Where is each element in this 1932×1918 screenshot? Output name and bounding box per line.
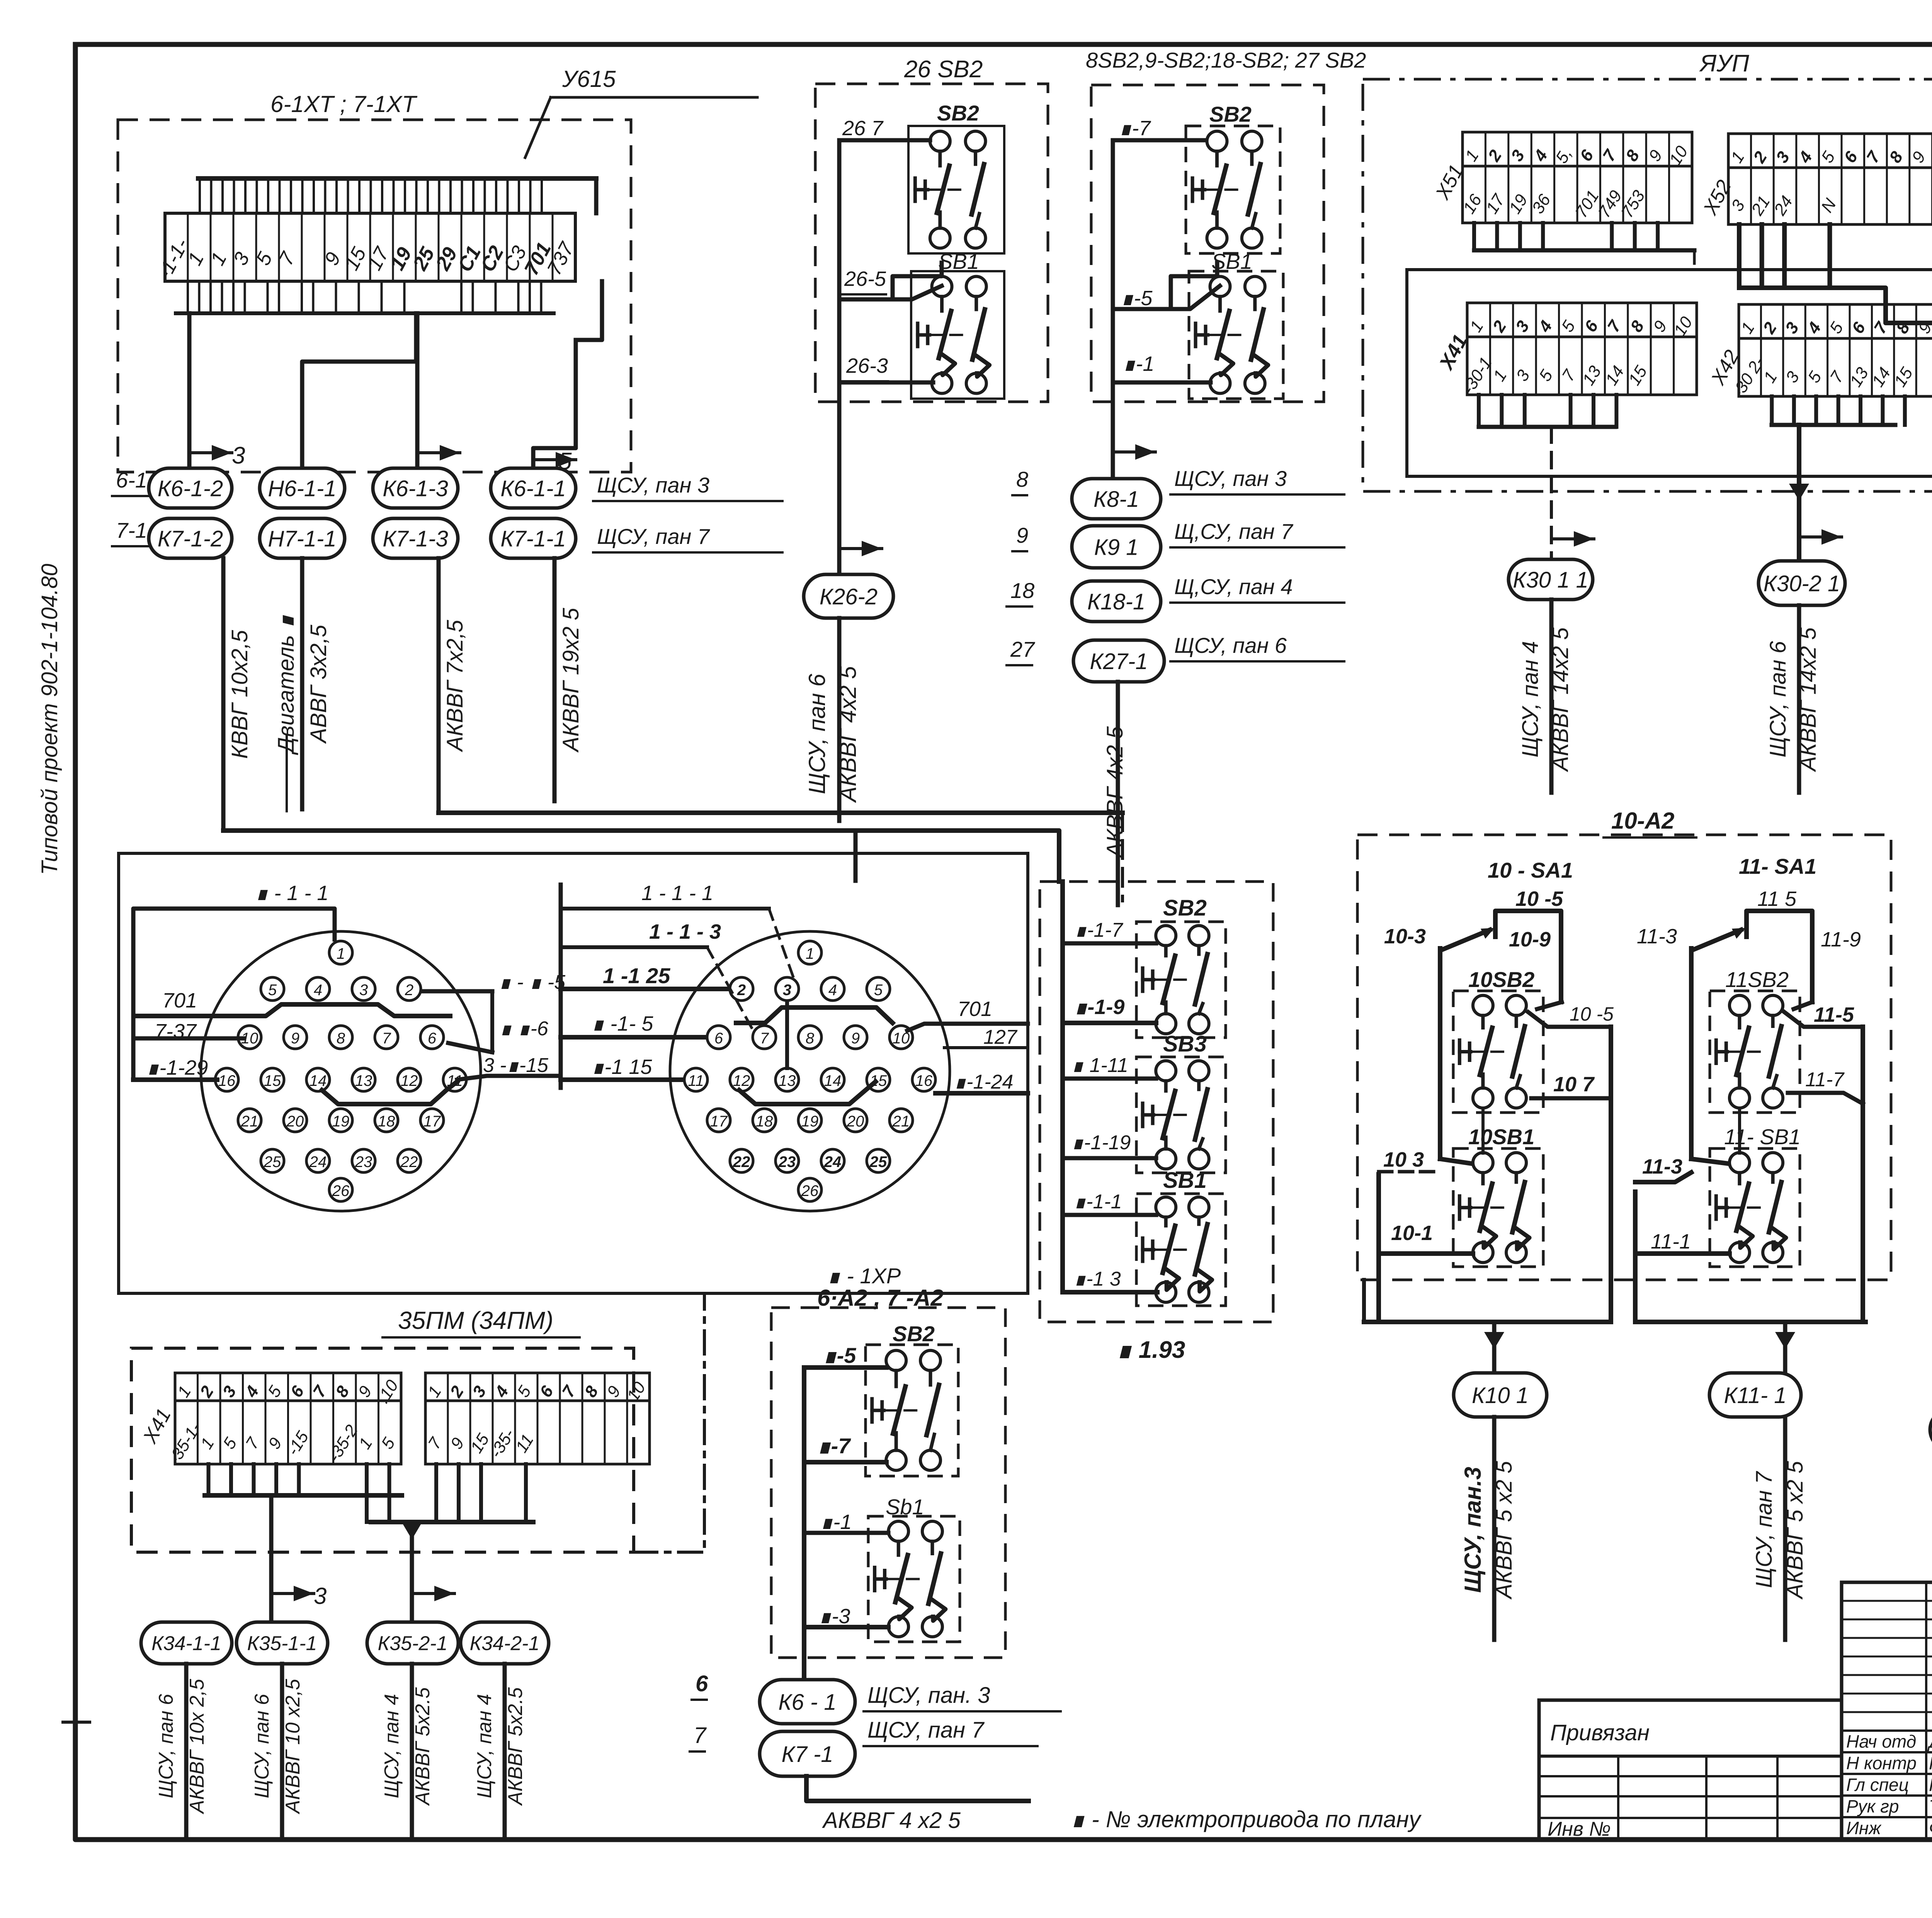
- svg-text:15: 15: [264, 1072, 281, 1089]
- wire 1-1-24: [935, 1091, 1028, 1096]
- svg-text:У615: У615: [562, 66, 616, 92]
- svg-text:АКВВГ 5х2.5: АКВВГ 5х2.5: [412, 1687, 434, 1806]
- svg-text:К6-1-1: К6-1-1: [500, 476, 566, 501]
- svg-text:∎-1-1: ∎-1-1: [1073, 1191, 1122, 1213]
- svg-text:5: 5: [268, 982, 277, 999]
- pin 6 right: [707, 1026, 730, 1049]
- svg-text:8: 8: [1016, 467, 1028, 491]
- svg-text:SB2: SB2: [1163, 895, 1207, 921]
- wire 1-1-9: [1063, 1021, 1156, 1025]
- wire 1-1-1: [561, 907, 769, 911]
- wire link SB2 to SB1: [893, 263, 942, 299]
- svg-text:АКВВГ 14х2 5: АКВВГ 14х2 5: [1796, 627, 1821, 772]
- arrow: [1799, 535, 1842, 539]
- svg-text:10-9: 10-9: [1509, 928, 1551, 951]
- svg-text:SB1: SB1: [1163, 1168, 1207, 1193]
- svg-text:АКВВГ 14х2 5: АКВВГ 14х2 5: [1548, 627, 1573, 772]
- svg-text:26: 26: [801, 1182, 819, 1199]
- svg-text:9: 9: [291, 1030, 299, 1047]
- pin 10 left: [238, 1026, 261, 1049]
- connector K10-1: [1454, 1373, 1547, 1417]
- wire 1-5 to SB1: [1113, 286, 1220, 309]
- pin 4 left: [306, 977, 330, 1001]
- svg-text:ЩСУ, пан 3: ЩСУ, пан 3: [597, 473, 709, 497]
- svg-text:АКВВГ 10х 2,5: АКВВГ 10х 2,5: [186, 1678, 208, 1814]
- pin 9 right: [844, 1026, 867, 1049]
- svg-text:7: 7: [760, 1030, 769, 1047]
- svg-text:2: 2: [405, 982, 413, 999]
- svg-text:14: 14: [310, 1072, 327, 1089]
- svg-text:К35-2-1: К35-2-1: [378, 1633, 448, 1655]
- wire 701 zigzag: [134, 1004, 450, 1016]
- cable AKVVG 7x2.5: [437, 558, 441, 813]
- svg-text:К7-1-1: К7-1-1: [500, 526, 566, 551]
- pin 19 right: [798, 1109, 821, 1132]
- svg-text:25: 25: [869, 1154, 887, 1171]
- svg-text:Инв №: Инв №: [1548, 1818, 1611, 1840]
- wire right side drop: [594, 178, 599, 213]
- wire 7-37: [134, 1036, 243, 1041]
- svg-text:Кудряшов: Кудряшов: [1929, 1753, 1932, 1773]
- svg-text:9: 9: [851, 1030, 860, 1047]
- svg-text:18: 18: [378, 1113, 395, 1130]
- svg-text:Кудряшов: Кудряшов: [1929, 1775, 1932, 1795]
- wire 26-3 to SB1: [839, 381, 933, 385]
- svg-text:КВВГ 10х2,5: КВВГ 10х2,5: [227, 630, 252, 759]
- wire X51 stubs to bus: [1472, 223, 1476, 250]
- svg-text:∎ - 1 - 1: ∎ - 1 - 1: [255, 882, 328, 905]
- connector K6-1-3: [373, 468, 458, 508]
- svg-text:АКВВГ 5 х2 5: АКВВГ 5 х2 5: [1782, 1461, 1808, 1600]
- connector K7-1-3: [373, 518, 458, 558]
- pin 16 right: [912, 1068, 935, 1091]
- cable SCHSU pan 7 AKVVG 5x2 5: [1783, 1417, 1787, 1640]
- enclosure 6-A2 dashed box: [771, 1308, 1005, 1658]
- svg-text:10 7: 10 7: [1553, 1073, 1595, 1096]
- svg-text:2: 2: [737, 982, 746, 999]
- connector K6-1-2: [149, 468, 232, 508]
- pin 26 left: [329, 1178, 352, 1201]
- svg-text:17: 17: [710, 1113, 728, 1130]
- svg-text:∎-1-24: ∎-1-24: [954, 1071, 1013, 1093]
- wire link SB2 to SB1: [1171, 263, 1217, 309]
- svg-text:∎-1: ∎-1: [820, 1510, 852, 1534]
- pin 19 left: [329, 1109, 352, 1132]
- wire right bus down: [1609, 1027, 1613, 1322]
- svg-text:АКВВГ 5 х2 5: АКВВГ 5 х2 5: [1492, 1461, 1517, 1600]
- svg-text:∎ - ∎ -5: ∎ - ∎ -5: [498, 971, 566, 994]
- connector K35-2-1: [367, 1622, 458, 1664]
- cable AKVVG 19x2.5: [553, 558, 557, 801]
- pin 10 right: [889, 1026, 913, 1049]
- svg-text:SB1: SB1: [938, 249, 979, 274]
- svg-text:12: 12: [733, 1072, 750, 1089]
- svg-text:10 3: 10 3: [1383, 1148, 1424, 1171]
- svg-text:Привязан: Привязан: [1550, 1720, 1650, 1745]
- svg-text:127: 127: [983, 1026, 1018, 1048]
- svg-text:К34-2-1: К34-2-1: [470, 1633, 540, 1655]
- svg-text:23: 23: [778, 1154, 796, 1171]
- wire stubs middle: [365, 1464, 369, 1522]
- svg-text:1 - 1 - 3: 1 - 1 - 3: [649, 920, 721, 943]
- svg-text:ЩСУ, пан.3: ЩСУ, пан.3: [1460, 1467, 1486, 1593]
- svg-text:К30-2 1: К30-2 1: [1764, 571, 1840, 596]
- wire right bus 11: [1861, 1027, 1865, 1322]
- pin 2 right: [730, 977, 753, 1001]
- wire 1-1-25: [561, 987, 727, 991]
- wire X42 stubs: [1770, 396, 1774, 425]
- svg-text:11-5: 11-5: [1814, 1003, 1854, 1026]
- connector K35-1-1: [236, 1622, 328, 1664]
- svg-text:701: 701: [957, 997, 992, 1021]
- pin 9 left: [284, 1026, 307, 1049]
- svg-text:21: 21: [892, 1113, 910, 1130]
- wire bus D: [1772, 423, 1895, 427]
- wire down to K6-1: [802, 1658, 806, 1689]
- svg-text:ЩСУ, пан. 3: ЩСУ, пан. 3: [867, 1683, 990, 1708]
- svg-text:1 - 1 - 1: 1 - 1 - 1: [641, 882, 713, 905]
- svg-text:25: 25: [264, 1154, 281, 1171]
- wire 26-7 to SB2: [839, 138, 930, 143]
- svg-text:∎-5: ∎-5: [823, 1343, 856, 1368]
- wire bus 2: [371, 1520, 533, 1524]
- wire zigzag right connector lower: [739, 1082, 876, 1104]
- svg-text:АКВВГ 10 х2,5: АКВВГ 10 х2,5: [282, 1678, 304, 1814]
- pin 22 right: [730, 1149, 753, 1172]
- connector K7-1-2: [149, 518, 232, 558]
- svg-text:3 -∎-15: 3 -∎-15: [483, 1054, 549, 1077]
- svg-text:ЩСУ, пан 4: ЩСУ, пан 4: [1518, 641, 1543, 757]
- wire 11-1: [1635, 1251, 1730, 1256]
- arrow: [1551, 537, 1594, 540]
- svg-text:20: 20: [286, 1113, 304, 1130]
- svg-text:6: 6: [714, 1030, 723, 1047]
- enclosure 10-A2 dashed box: [1357, 835, 1891, 1280]
- svg-text:7-1: 7-1: [116, 518, 147, 542]
- pin 25 right: [867, 1149, 890, 1172]
- svg-text:К11- 1: К11- 1: [1724, 1383, 1786, 1408]
- pin 18 right: [753, 1109, 776, 1132]
- arrow 3: [189, 451, 232, 454]
- svg-text:Рук гр: Рук гр: [1846, 1796, 1899, 1816]
- pin 7 left: [375, 1026, 398, 1049]
- svg-text:К7-1-2: К7-1-2: [158, 526, 223, 551]
- wire blade drop 11: [1689, 948, 1694, 1159]
- wire stubs left strip: [207, 1464, 211, 1495]
- wire 10-1: [1379, 1251, 1473, 1256]
- svg-text:13: 13: [355, 1072, 372, 1089]
- svg-text:3: 3: [359, 982, 368, 999]
- svg-text:ЩСУ, пан 7: ЩСУ, пан 7: [1752, 1471, 1777, 1588]
- svg-text:10-А2: 10-А2: [1611, 808, 1674, 834]
- connector K6-1-1: [491, 468, 576, 508]
- svg-text:АКВВГ 4 х2 5: АКВВГ 4 х2 5: [822, 1808, 961, 1833]
- svg-text:ЩСУ, пан 3: ЩСУ, пан 3: [1174, 466, 1287, 491]
- frame tick mark: [63, 1721, 90, 1724]
- wire dash drop into SB column area: [1121, 813, 1124, 901]
- arrow: [412, 1592, 454, 1595]
- svg-text:11SB2: 11SB2: [1725, 967, 1789, 992]
- wire 1-1-5: [561, 1035, 704, 1040]
- connector K11-1: [1709, 1373, 1801, 1417]
- wire 1-1-29: [133, 1077, 217, 1082]
- pin 12 right: [730, 1068, 753, 1091]
- svg-text:∎-7: ∎-7: [1119, 117, 1151, 140]
- svg-text:3: 3: [314, 1583, 327, 1609]
- pin 23 left: [352, 1149, 375, 1172]
- svg-text:К18-1: К18-1: [1087, 589, 1145, 614]
- wire 1-1-3: [1063, 1290, 1157, 1295]
- pin 14 left: [306, 1068, 330, 1091]
- connector K6-1: [760, 1680, 855, 1724]
- svg-text:10 -5: 10 -5: [1515, 887, 1563, 911]
- svg-text:26: 26: [332, 1182, 350, 1199]
- pin 2 left: [398, 977, 421, 1001]
- wire bottom bus 10: [1364, 1320, 1611, 1324]
- svg-text:12: 12: [401, 1072, 418, 1089]
- wire pin6 to 1-1-6: [448, 1043, 492, 1052]
- wire blade drop: [1438, 948, 1442, 1159]
- svg-text:11: 11: [688, 1072, 704, 1089]
- svg-text:ЩСУ, пан 6: ЩСУ, пан 6: [1765, 641, 1791, 758]
- connector H7-1-1: [260, 518, 345, 558]
- svg-text:∎ - 1ХР: ∎ - 1ХР: [827, 1264, 901, 1288]
- svg-text:11-7: 11-7: [1805, 1069, 1845, 1091]
- svg-text:∎-1-7: ∎-1-7: [1074, 919, 1124, 941]
- svg-text:7: 7: [694, 1723, 707, 1748]
- wire X41 stubs: [1477, 395, 1481, 427]
- svg-text:∎-1 15: ∎-1 15: [591, 1055, 652, 1079]
- wire drop to K35-1-1: [269, 1495, 274, 1622]
- svg-text:11-3: 11-3: [1642, 1155, 1682, 1178]
- svg-text:К26-2: К26-2: [820, 584, 878, 609]
- svg-text:Двигатель ∎: Двигатель ∎: [274, 615, 299, 755]
- svg-text:Н контр: Н контр: [1846, 1753, 1917, 1773]
- connector K9-1: [1072, 526, 1161, 568]
- pin 13 right: [776, 1068, 799, 1091]
- cable AKVVG 4x2 5: [1116, 682, 1120, 905]
- pin 13 left: [352, 1068, 375, 1091]
- pin 3 right: [776, 977, 799, 1001]
- connector shell left: [201, 931, 481, 1211]
- svg-text:6-1: 6-1: [116, 468, 147, 492]
- svg-text:∎-1 3: ∎-1 3: [1073, 1268, 1121, 1290]
- title block attach table: [1539, 1700, 1842, 1840]
- wire 1-3: [804, 1625, 888, 1629]
- connector K8-1: [1072, 479, 1161, 519]
- wire 11-3 link: [1635, 1172, 1691, 1182]
- connector K7-1: [760, 1731, 855, 1776]
- cable SCHSU pan 3 AKVVG 5x2 5: [1492, 1417, 1497, 1640]
- svg-text:К6 - 1: К6 - 1: [778, 1690, 836, 1715]
- svg-text:∎ -1- 5: ∎ -1- 5: [591, 1012, 653, 1035]
- pin 17 right: [707, 1109, 730, 1132]
- pin 14 right: [821, 1068, 844, 1091]
- wire drop to K30-2-1: [1797, 425, 1801, 561]
- wire stubs right strip: [434, 1464, 438, 1522]
- svg-text:SB2: SB2: [937, 101, 979, 125]
- wire bus B to right side: [1739, 288, 1932, 476]
- pin 6 left: [420, 1026, 444, 1049]
- svg-text:701: 701: [162, 989, 197, 1012]
- selector 10-SA1: [1495, 911, 1561, 1002]
- pin 5 right: [867, 977, 890, 1001]
- wire 1-5: [804, 1365, 886, 1370]
- wire SB2-SB1 vertical link 11: [1738, 1111, 1741, 1153]
- svg-text:9: 9: [1016, 523, 1028, 547]
- svg-text:21: 21: [241, 1113, 259, 1130]
- wire X52 stubs to bus: [1737, 224, 1742, 288]
- blade 11-SA1: [1694, 930, 1741, 950]
- connector K26-2: [804, 574, 893, 618]
- wire 1-1-3: [561, 945, 707, 949]
- wire bottom bus: [176, 311, 554, 315]
- svg-text:24: 24: [309, 1154, 327, 1171]
- pin 5 left: [261, 977, 284, 1001]
- svg-text:К34-1-1: К34-1-1: [151, 1633, 221, 1655]
- pin 16 left: [215, 1068, 238, 1091]
- svg-text:16: 16: [915, 1072, 933, 1089]
- wire drop to K10-1: [1492, 1322, 1497, 1373]
- wire top vertical into box: [854, 831, 858, 881]
- svg-text:26 SB2: 26 SB2: [904, 56, 983, 83]
- wire 1-1-11: [1063, 1077, 1156, 1081]
- pin 20 left: [284, 1109, 307, 1132]
- wire bus A tail: [1693, 250, 1696, 270]
- svg-text:13: 13: [779, 1072, 796, 1089]
- wire SA right to SB2 TR: [1537, 1002, 1562, 1009]
- wire left bus column: [1060, 882, 1065, 1290]
- cable K34-1-1: [184, 1664, 189, 1836]
- svg-text:10-3: 10-3: [1384, 925, 1426, 948]
- pin 1 left: [329, 941, 352, 964]
- wire bus C: [1479, 425, 1615, 429]
- connector shell right: [670, 931, 950, 1211]
- svg-text:11- SA1: 11- SA1: [1739, 854, 1816, 878]
- svg-text:19: 19: [801, 1113, 819, 1130]
- svg-text:SB3: SB3: [1163, 1031, 1207, 1057]
- pin 3 left: [352, 977, 375, 1001]
- wire drop to K35-2-1: [410, 1522, 414, 1622]
- connector K7-1-1: [491, 518, 576, 558]
- cable KVVG 10x2.5: [221, 558, 226, 831]
- svg-text:18: 18: [1010, 578, 1034, 603]
- svg-text:Щ,СУ, пан 4: Щ,СУ, пан 4: [1174, 574, 1293, 599]
- enclosure 26 SB2 dashed box: [815, 84, 1048, 402]
- connector K30-1-1: [1509, 559, 1593, 600]
- connector K27-1: [1073, 640, 1164, 682]
- connector K34-1-1: [141, 1622, 232, 1664]
- pin 7 right: [753, 1026, 776, 1049]
- connector H6-1-1: [260, 468, 345, 508]
- wire zigzag row4 left: [322, 1082, 457, 1104]
- svg-text:АВВГ 3х2,5: АВВГ 3х2,5: [306, 624, 331, 744]
- wire 127: [944, 1046, 1028, 1049]
- svg-text:Нач отд: Нач отд: [1846, 1731, 1916, 1752]
- wire 1-1-19: [1063, 1156, 1156, 1160]
- svg-text:ЩСУ, пан 4: ЩСУ, пан 4: [473, 1694, 496, 1798]
- wire below K7-1: [806, 1776, 1029, 1801]
- svg-text:11-1: 11-1: [1651, 1230, 1691, 1253]
- svg-text:Щ,СУ, пан 7: Щ,СУ, пан 7: [1174, 519, 1293, 544]
- svg-text:Тарасова: Тарасова: [1929, 1796, 1932, 1816]
- pin 8 right: [798, 1026, 821, 1049]
- wire long bus lower: [223, 831, 1059, 882]
- wire SB2-SB1 vertical link: [1481, 1111, 1485, 1153]
- arrow: [417, 451, 460, 454]
- svg-text:35ПМ (34ПМ): 35ПМ (34ПМ): [398, 1306, 553, 1334]
- svg-text:27: 27: [1010, 637, 1035, 661]
- inner box of YAUP: [1407, 270, 1932, 476]
- cable K34-2-1: [503, 1664, 507, 1836]
- svg-text:∎ ∎-6: ∎ ∎-6: [499, 1018, 548, 1040]
- wire bracket pin2-pin6: [490, 991, 494, 1052]
- svg-text:АКВВГ 5х2.5: АКВВГ 5х2.5: [504, 1687, 527, 1806]
- wire 26-5 to SB1: [839, 286, 942, 299]
- wire 10-3 dashed link: [1379, 1170, 1440, 1174]
- svg-text:10SB1: 10SB1: [1468, 1125, 1534, 1149]
- svg-text:ЩСУ, пан 6: ЩСУ, пан 6: [155, 1694, 177, 1798]
- svg-text:14: 14: [824, 1072, 842, 1089]
- pin 24 left: [306, 1149, 330, 1172]
- pin 11 left: [443, 1068, 466, 1091]
- svg-text:11-3: 11-3: [1637, 925, 1677, 948]
- svg-text:∎-7: ∎-7: [817, 1434, 851, 1458]
- connector K18-1: [1072, 581, 1161, 622]
- wire TR out to right bus: [1528, 1012, 1611, 1027]
- svg-text:6-1ХТ ; 7-1ХТ: 6-1ХТ ; 7-1ХТ: [270, 91, 418, 117]
- pin 21 right: [889, 1109, 913, 1132]
- wire 1-1-7: [1063, 941, 1156, 946]
- svg-text:SB2: SB2: [1209, 102, 1252, 126]
- wire left bus 26: [837, 140, 842, 402]
- wire bus 1: [205, 1493, 402, 1498]
- svg-text:4: 4: [314, 982, 322, 999]
- cable SCHSU pan 4 AKVVG 14x2 5: [1549, 600, 1554, 793]
- svg-text:8: 8: [806, 1030, 815, 1047]
- svg-text:∎ 1.93: ∎ 1.93: [1117, 1337, 1185, 1363]
- svg-text:11 5: 11 5: [1757, 887, 1797, 911]
- svg-text:Н7-1-1: Н7-1-1: [268, 526, 336, 551]
- svg-text:22: 22: [400, 1154, 418, 1171]
- svg-text:ЩСУ, пан 7: ЩСУ, пан 7: [867, 1718, 985, 1743]
- svg-text:К7-1-3: К7-1-3: [383, 526, 448, 551]
- wire 701 right: [907, 1024, 1028, 1031]
- svg-text:К35-1-1: К35-1-1: [247, 1633, 317, 1655]
- svg-text:5: 5: [874, 982, 883, 999]
- svg-text:6: 6: [696, 1671, 708, 1696]
- svg-text:Гл спец: Гл спец: [1846, 1775, 1909, 1795]
- svg-text:∎-1-9: ∎-1-9: [1074, 996, 1124, 1019]
- svg-text:Типовой проект 902-1-104.80: Типовой проект 902-1-104.80: [37, 564, 62, 875]
- wire 1-7 to SB2: [1113, 138, 1206, 143]
- svg-text:11- SB1: 11- SB1: [1724, 1125, 1801, 1149]
- pin 25 left: [261, 1149, 284, 1172]
- pin 20 right: [844, 1109, 867, 1132]
- svg-text:ЯУП: ЯУП: [1699, 50, 1749, 77]
- wire 1-7: [804, 1460, 886, 1464]
- wire pin3 to pin13: [785, 1001, 789, 1068]
- svg-text:26 7: 26 7: [842, 117, 884, 140]
- svg-text:1: 1: [806, 945, 814, 962]
- svg-text:26-5: 26-5: [844, 267, 886, 291]
- pin 1 right: [798, 941, 821, 964]
- selector 11-SA1: [1747, 911, 1812, 1002]
- wire drop to K11-1: [1783, 1322, 1787, 1373]
- blade 10-SA1: [1442, 930, 1490, 950]
- svg-text:К9 1: К9 1: [1094, 535, 1139, 560]
- wire left bus 11: [1633, 1192, 1638, 1322]
